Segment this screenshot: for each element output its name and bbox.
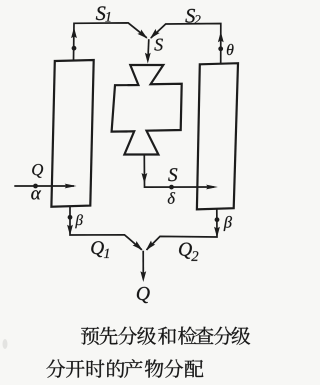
wire: crusher discharge to right column: [144, 155, 214, 188]
arrow up on left riser: [71, 27, 77, 38]
label delta: [168, 192, 175, 204]
label theta: [227, 44, 234, 55]
wire: right column underflow to Q junction: [147, 209, 218, 250]
node on left riser: [72, 46, 77, 51]
label Q product: [137, 287, 150, 303]
node delta on discharge: [169, 185, 174, 190]
arrow Q2 into junction: [146, 241, 155, 251]
arrow down left underflow: [67, 225, 73, 236]
label beta right: [224, 216, 232, 231]
label Q feed: [32, 164, 43, 178]
label beta left: [75, 214, 83, 228]
crusher U1 (body with top hopper and bottom discharge): [112, 65, 182, 155]
wire: left column top riser to S1 line: [74, 23, 147, 60]
scan smudge: [3, 339, 8, 349]
wire: left column underflow to Q junction: [70, 207, 142, 250]
label S1: [96, 6, 106, 20]
label S2: [185, 9, 195, 23]
arrow into right column: [206, 185, 218, 190]
arrow down on discharge: [142, 173, 148, 184]
arrow: S1 into junction: [137, 29, 147, 38]
arrow up on right riser: [218, 32, 224, 43]
label alpha: [31, 190, 41, 199]
wire: right column top riser to S2 line: [151, 24, 221, 64]
node beta right: [215, 217, 220, 222]
arrow down right underflow: [214, 227, 220, 238]
node beta left: [68, 215, 73, 220]
left classifier column: [51, 60, 93, 207]
node alpha on feed: [33, 184, 38, 189]
wire: feed Q into left column: [14, 185, 74, 187]
label Q2: [179, 243, 192, 259]
caption line 2: [46, 359, 65, 377]
wire: combined product Q out: [142, 251, 144, 278]
right classifier column: [197, 63, 238, 209]
node theta on right riser: [218, 46, 223, 51]
arrow: S2 into junction: [150, 29, 160, 39]
arrow Q1 into junction: [133, 241, 143, 250]
label S discharge: [168, 168, 177, 181]
label S at junction: [154, 39, 162, 51]
label Q1: [91, 241, 104, 257]
arrow feed: [65, 184, 77, 189]
caption line 1: [81, 327, 99, 345]
wire: S junction down into crusher: [147, 39, 150, 60]
